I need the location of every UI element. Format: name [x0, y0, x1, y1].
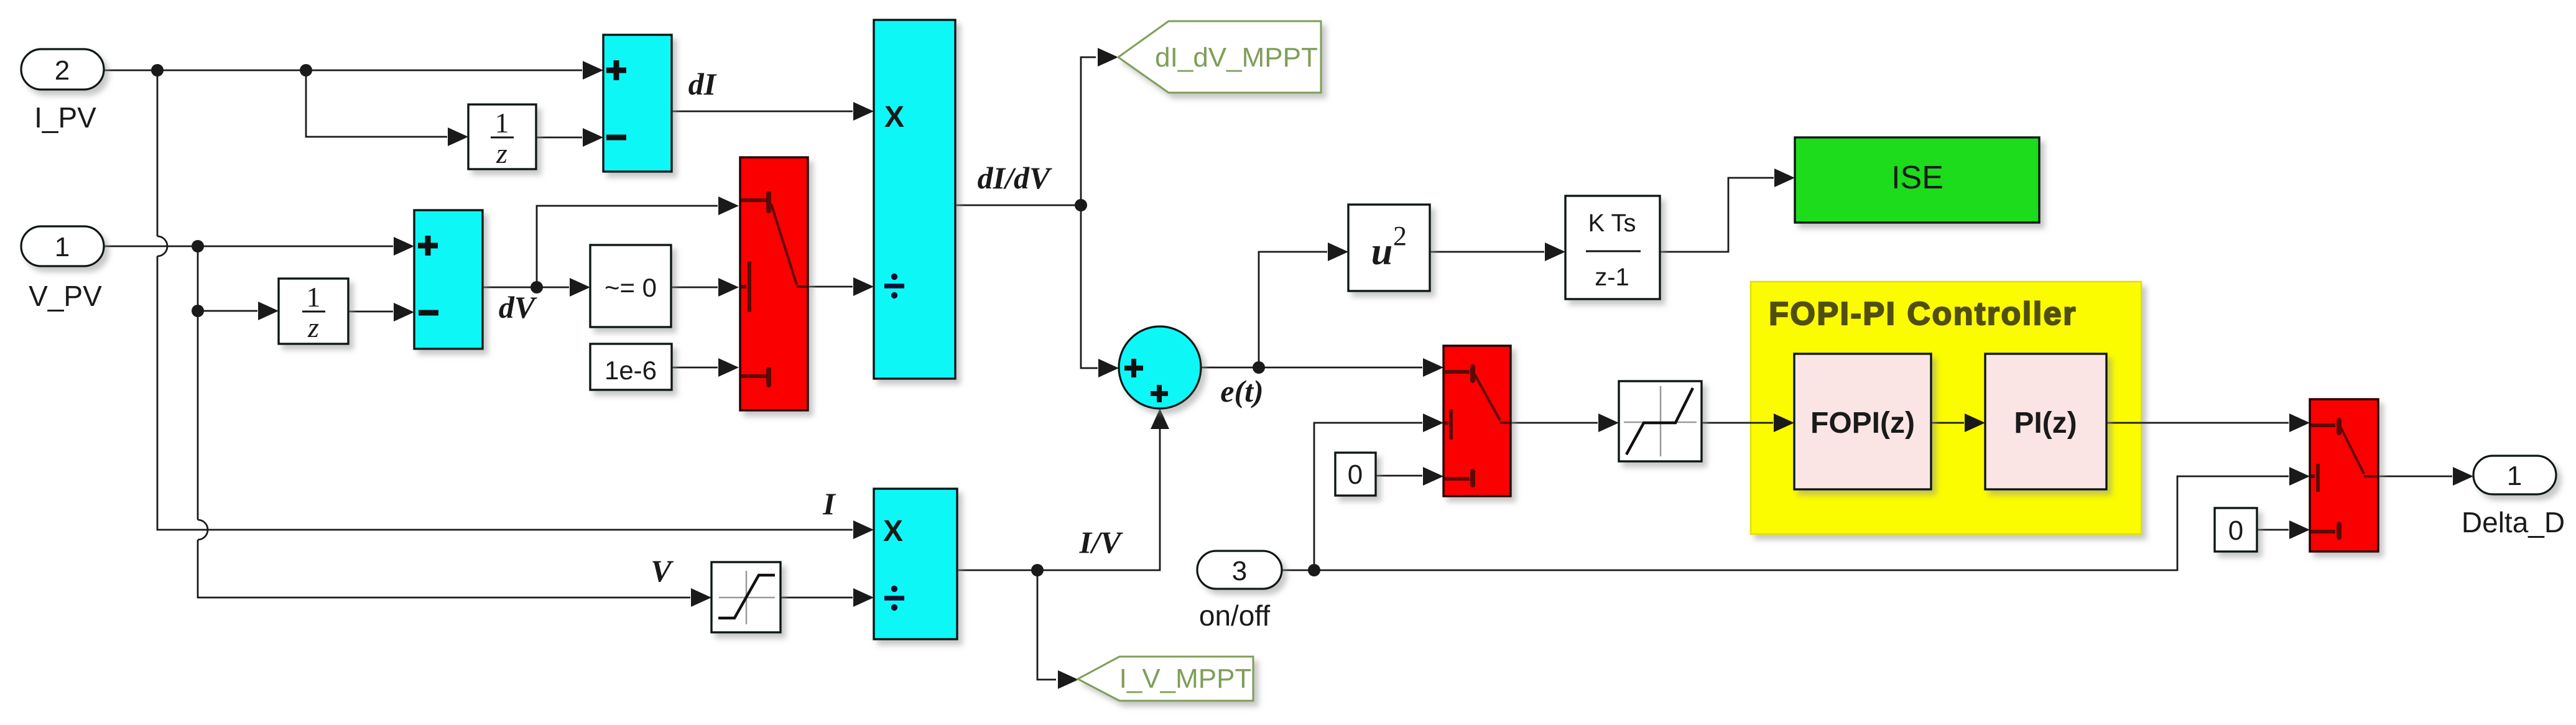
wire Constant zero2 to Switch3 bottom input [2257, 529, 2289, 531]
junction dot V_PV branch [192, 240, 204, 252]
product block Product1 (X /) [874, 20, 955, 379]
product block Product2 (X /) [874, 489, 957, 639]
svg-text:I/V: I/V [1079, 525, 1123, 560]
wire u2 to discrete integrator [1430, 251, 1544, 253]
switch Switch2 [1443, 346, 1511, 496]
junction dot dI/dV [1075, 199, 1087, 211]
wire Unit Delay1 to Add1 minus input [536, 137, 582, 139]
unit delay 1/z (I) [468, 104, 536, 169]
compare block ~= 0 [590, 245, 671, 327]
scope block ISE [1795, 137, 2039, 223]
svg-text:2: 2 [55, 55, 70, 86]
wire e(t): Add3 to Switch2 top input [1201, 367, 1422, 369]
svg-text:~= 0: ~= 0 [605, 273, 657, 302]
controller block PI(z) [1985, 354, 2106, 489]
switch3 internal symbol [2311, 420, 2378, 537]
svg-text:X: X [884, 101, 904, 134]
controller block FOPI(z) [1794, 354, 1931, 489]
svg-text:1: 1 [2507, 461, 2522, 491]
wire V vertical with line hop over I wire [198, 246, 690, 598]
switch Switch3 [2310, 399, 2378, 552]
wire dI/dV: Product1 output to junction [955, 205, 1081, 206]
sum block Add1 (dI) [603, 35, 672, 172]
svg-text:V_PV: V_PV [29, 280, 102, 312]
svg-text:FOPI-PI Controller: FOPI-PI Controller [1769, 296, 2077, 332]
math function u^2 [1348, 205, 1430, 291]
wire I vertical with line hop over V_PV wire, to Product2 X input [157, 70, 853, 530]
svg-text:2: 2 [1393, 221, 1407, 251]
wire Saturation1 to Product2 divide input [781, 597, 853, 599]
junction dot I_PV delay branch [300, 64, 312, 76]
junction dot I/V [1031, 564, 1044, 576]
wire V_PV to Add2 plus input [104, 246, 393, 247]
goto tag I_V_MPPT [1078, 657, 1253, 701]
wire dV branch to Switch1 top input [537, 206, 718, 287]
svg-text:FOPI(z): FOPI(z) [1810, 407, 1915, 440]
saturation block Saturation1 [711, 562, 781, 632]
junction dot I_PV branch [151, 64, 164, 76]
junction dot dV branch [530, 281, 543, 293]
wire PI(z) to Switch3 top input [2106, 422, 2289, 424]
wire Compare To Zero to Switch1 middle input [671, 287, 718, 289]
svg-text:3: 3 [1232, 556, 1247, 586]
goto tag dI_dV_MPPT [1118, 21, 1321, 93]
switch1 internal symbol [741, 193, 807, 385]
svg-text:1: 1 [307, 281, 321, 313]
svg-text:z: z [307, 312, 319, 343]
wire Constant 1e-6 to Switch1 bottom input [672, 367, 718, 369]
saturation2 icon [1624, 386, 1697, 456]
constant 1e-6 [590, 344, 672, 390]
outport 1 Delta_D [2473, 456, 2556, 494]
discrete integrator K Ts/(z-1) [1565, 196, 1660, 299]
wire Saturation2 to FOPI(z) [1702, 422, 1773, 424]
wire dV: Add2 to Compare To Zero [483, 287, 569, 289]
inport 1 V_PV [21, 226, 104, 266]
switch Switch1 [740, 157, 808, 410]
svg-text:Delta_D: Delta_D [2462, 506, 2565, 538]
constant 0 (Switch2) [1335, 453, 1376, 496]
svg-text:0: 0 [1348, 459, 1363, 490]
svg-text:z-1: z-1 [1595, 264, 1629, 291]
svg-text:1: 1 [495, 107, 509, 139]
wire I_PV to Add1 plus input [104, 70, 582, 72]
junction dot e(t) [1253, 361, 1265, 374]
svg-text:V: V [651, 553, 674, 588]
svg-text:ISE: ISE [1891, 160, 1944, 196]
inport 3 on/off [1197, 551, 1282, 589]
svg-text:I_PV: I_PV [34, 101, 96, 134]
svg-text:I: I [822, 486, 836, 521]
wire on/off long run to Switch3 middle input [1282, 476, 2289, 570]
svg-text:on/off: on/off [1199, 599, 1270, 632]
wire Switch3 to outport Delta_D [2378, 476, 2452, 478]
wire I_PV branch to Unit Delay1 [306, 70, 447, 137]
svg-text:I_V_MPPT: I_V_MPPT [1119, 663, 1252, 694]
inport 2 I_PV [21, 49, 104, 90]
wire Switch1 to Product1 divide input [808, 286, 853, 288]
area FOPI-PI Controller [1751, 282, 2141, 534]
sum circle Add3 (e(t)) [1119, 326, 1201, 409]
wire dI/dV up to Goto dI_dV_MPPT [1081, 57, 1096, 205]
svg-text:PI(z): PI(z) [2014, 407, 2077, 440]
svg-text:dI: dI [688, 67, 717, 101]
svg-text:1e-6: 1e-6 [605, 356, 657, 385]
svg-text:1: 1 [55, 232, 70, 262]
svg-text:z: z [496, 137, 507, 169]
constant 0 (Switch3) [2215, 508, 2257, 552]
svg-text:dI_dV_MPPT: dI_dV_MPPT [1155, 42, 1318, 73]
wire I/V: Product2 to Add3 bottom input [957, 429, 1160, 570]
wire Unit Delay2 to Add2 minus input [348, 311, 393, 313]
wire on/off branch up to Switch2 middle input [1314, 423, 1422, 570]
wire FOPI(z) to PI(z) [1931, 422, 1964, 424]
saturation1 icon [718, 571, 775, 624]
wire e(t) branch up to u2 block [1259, 252, 1327, 367]
svg-text:e(t): e(t) [1220, 374, 1263, 409]
sum block Add2 (dV) [414, 210, 483, 349]
wire Switch2 to Saturation2 [1511, 422, 1598, 424]
svg-text:X: X [883, 515, 903, 548]
svg-text:dV: dV [499, 290, 537, 325]
wire discrete integrator to ISE [1660, 178, 1774, 252]
svg-text:K Ts: K Ts [1588, 210, 1636, 237]
saturation block Saturation2 [1619, 381, 1702, 461]
unit delay 1/z (V) [279, 279, 348, 344]
junction dot on/off [1308, 564, 1320, 576]
wire dI/dV down to Add3 sum circle [1081, 205, 1098, 368]
switch2 internal symbol [1445, 367, 1510, 485]
wire Constant zero to Switch2 bottom input [1376, 475, 1422, 477]
wire V branch to Unit Delay2 [198, 310, 257, 312]
svg-text:0: 0 [2228, 515, 2243, 546]
svg-text:u: u [1371, 231, 1392, 273]
svg-text:dI/dV: dI/dV [978, 160, 1052, 195]
wire I/V branch to Goto I_V_MPPT [1037, 570, 1056, 680]
junction dot V delay branch [192, 305, 204, 317]
wire dI: Add1 to Product1 X input [672, 111, 853, 113]
